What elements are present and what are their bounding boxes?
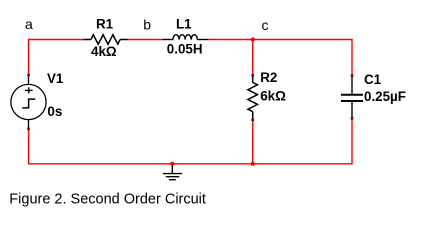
svg-text:0s: 0s [47, 104, 62, 119]
wire: top segment node a to R1 [29, 39, 84, 41]
wire: left vertical upper (a to V1) [28, 39, 30, 75]
junction dot node c [251, 37, 255, 41]
svg-text:R2: R2 [260, 70, 277, 85]
svg-text:V1: V1 [47, 71, 64, 86]
V1 step waveform symbol [22, 99, 35, 108]
pin mark C1 top [351, 74, 354, 76]
svg-text:0.25µF: 0.25µF [364, 89, 406, 104]
junction dot bottom of R2 branch [251, 162, 255, 166]
pin mark V1 top [27, 74, 30, 76]
svg-text:b: b [143, 17, 151, 33]
V1 plus sign [25, 87, 32, 93]
pin mark C1 bottom [351, 117, 354, 119]
svg-text:Figure 2. Second Order Circuit: Figure 2. Second Order Circuit [9, 192, 206, 208]
ground symbol [163, 164, 182, 180]
voltage source V1 [11, 76, 46, 128]
resistor R1 [83, 35, 128, 44]
svg-text:6kΩ: 6kΩ [260, 88, 286, 103]
svg-text:C1: C1 [364, 72, 382, 87]
wire: right vertical lower (C1 to bottom) [351, 119, 353, 165]
inductor L1 [162, 35, 208, 40]
svg-text:a: a [25, 16, 33, 32]
svg-text:R1: R1 [96, 17, 114, 32]
svg-text:c: c [262, 17, 269, 33]
wire: right vertical upper (to C1) [351, 39, 353, 75]
resistor R2 [248, 75, 258, 120]
wire: node c branch vertical lower (R2 to bottom) [252, 120, 254, 164]
wire: bottom horizontal [29, 163, 353, 165]
capacitor C1 [341, 76, 363, 118]
wire: top segment R1 to L1 (node b) [128, 39, 163, 41]
svg-text:L1: L1 [176, 17, 192, 32]
pin mark V1 bottom [27, 128, 30, 130]
wire: left vertical lower (V1 to bottom) [28, 130, 30, 165]
svg-text:0.05H: 0.05H [167, 42, 203, 57]
pin mark R2 bottom [251, 119, 254, 121]
pin mark R2 top [251, 74, 254, 76]
svg-text:4kΩ: 4kΩ [91, 44, 117, 59]
wire: top segment L1 to node c to top-right corner [208, 39, 352, 41]
junction dot ground [170, 162, 174, 166]
wire: node c branch vertical upper (c to R2) [252, 40, 254, 75]
